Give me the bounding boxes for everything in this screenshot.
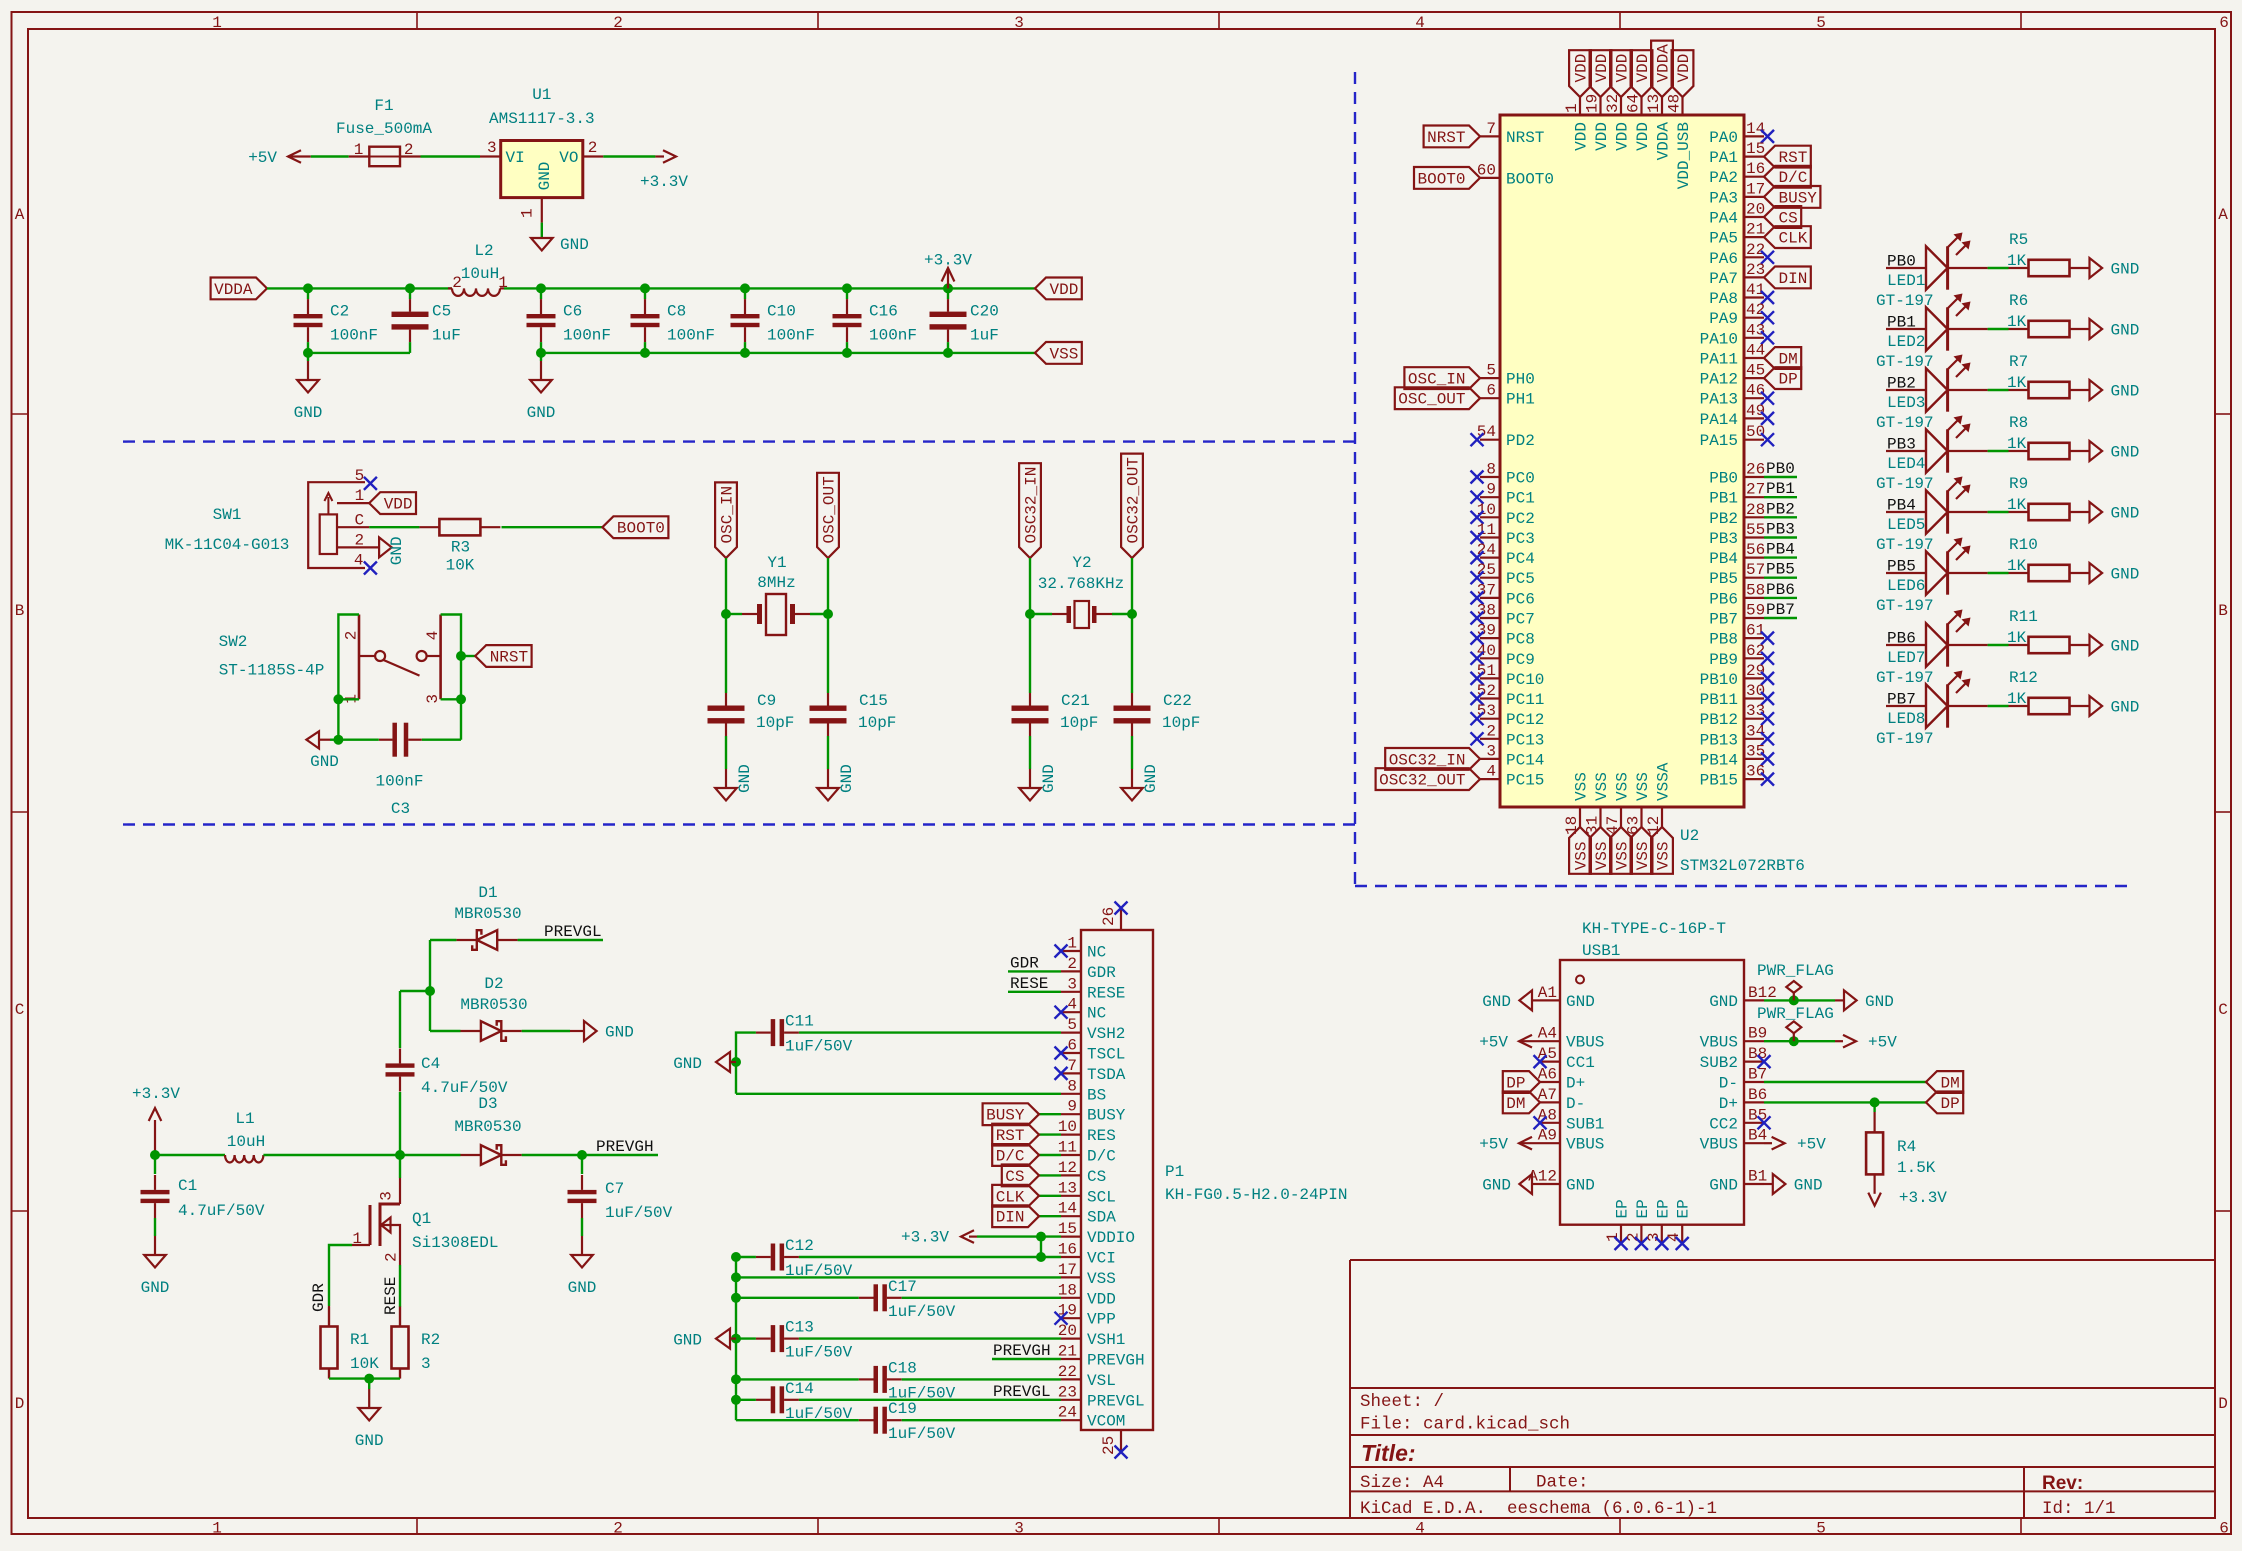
svg-text:VDD: VDD bbox=[1573, 122, 1591, 151]
pin 45 U2 PA12 bbox=[1744, 377, 1764, 379]
global label VDDA bbox=[1651, 41, 1673, 97]
power +5V at USB1 B9 bbox=[1835, 1040, 1843, 1042]
svg-text:27: 27 bbox=[1746, 481, 1765, 499]
svg-text:C1: C1 bbox=[178, 1177, 197, 1195]
no-connect U2 PC7 bbox=[1471, 612, 1484, 625]
svg-text:A: A bbox=[2218, 206, 2228, 224]
capacitor C19 bbox=[874, 1407, 879, 1434]
wire bbox=[1764, 999, 1835, 1001]
wire bbox=[1988, 572, 2009, 574]
pin 20 U2 PA4 bbox=[1744, 216, 1764, 218]
wire bbox=[827, 558, 829, 614]
svg-text:VDD: VDD bbox=[1573, 54, 1591, 83]
svg-text:4: 4 bbox=[1067, 996, 1077, 1014]
svg-text:1K: 1K bbox=[2007, 629, 2027, 647]
wire bbox=[846, 288, 848, 299]
svg-text:PA14: PA14 bbox=[1700, 411, 1738, 429]
svg-text:GND: GND bbox=[2111, 322, 2140, 340]
capacitor C11 bbox=[771, 1019, 776, 1046]
ground under R1 R2 bbox=[368, 1389, 370, 1408]
power +3.3V output bbox=[655, 155, 664, 157]
no-connect U2 PC12 bbox=[1471, 712, 1484, 725]
no-connect U2 PC11 bbox=[1471, 692, 1484, 705]
wire bbox=[1039, 1215, 1061, 1217]
svg-text:PC7: PC7 bbox=[1506, 611, 1535, 629]
wire bbox=[1029, 558, 1031, 614]
svg-text:SUB2: SUB2 bbox=[1700, 1054, 1738, 1072]
pin 15 P1 VDDIO bbox=[1061, 1235, 1081, 1237]
resistor R3 bbox=[439, 519, 480, 535]
svg-text:PC15: PC15 bbox=[1506, 772, 1544, 790]
svg-text:2: 2 bbox=[588, 139, 598, 157]
pin 6 U2 PH1 bbox=[1480, 397, 1500, 399]
global label VSS bbox=[1651, 827, 1673, 874]
no-connect SW1 pin 4 bbox=[364, 562, 377, 575]
svg-text:100nF: 100nF bbox=[667, 326, 715, 344]
svg-text:RES: RES bbox=[1087, 1127, 1116, 1145]
svg-text:DM: DM bbox=[1779, 351, 1798, 369]
wire bbox=[263, 1154, 460, 1156]
wire bbox=[736, 1276, 1061, 1278]
pin 58 U2 PB6 bbox=[1744, 597, 1764, 599]
svg-text:+5V: +5V bbox=[1797, 1136, 1826, 1154]
global label VSS bbox=[1035, 342, 1082, 364]
global label NRST bbox=[1424, 126, 1480, 148]
junction C2 bottom bbox=[303, 348, 313, 358]
svg-text:2: 2 bbox=[1067, 955, 1077, 973]
pin 9 P1 BUSY bbox=[1061, 1113, 1081, 1115]
svg-text:D: D bbox=[15, 1395, 25, 1413]
svg-text:C12: C12 bbox=[785, 1237, 814, 1255]
pin 31 U2 VSS bottom bbox=[1599, 807, 1601, 827]
pin B12 USB1 GND bbox=[1744, 999, 1764, 1001]
svg-text:GND: GND bbox=[2111, 566, 2140, 584]
svg-text:GDR: GDR bbox=[1010, 954, 1039, 972]
capacitor C17 bbox=[874, 1284, 879, 1311]
wire bbox=[827, 736, 829, 769]
pin 20 P1 VSH1 bbox=[1061, 1337, 1081, 1339]
svg-text:59: 59 bbox=[1746, 602, 1765, 620]
pin 17 P1 VSS bbox=[1061, 1276, 1081, 1278]
svg-text:GND: GND bbox=[673, 1332, 702, 1350]
svg-text:OSC_IN: OSC_IN bbox=[719, 486, 737, 544]
junction bus row 16 bbox=[731, 1252, 741, 1262]
svg-text:NRST: NRST bbox=[490, 649, 528, 667]
wire bbox=[799, 1337, 1061, 1339]
global label BUSY bbox=[1764, 186, 1820, 208]
svg-text:28: 28 bbox=[1746, 501, 1765, 519]
wire bbox=[502, 526, 603, 528]
svg-text:3: 3 bbox=[378, 1191, 396, 1201]
ground at C11 bbox=[716, 1052, 730, 1072]
svg-text:VDD: VDD bbox=[1634, 122, 1652, 151]
svg-text:3: 3 bbox=[421, 1355, 431, 1373]
svg-text:D+: D+ bbox=[1719, 1095, 1738, 1113]
pin 19 P1 VPP bbox=[1061, 1317, 1081, 1319]
svg-text:1K: 1K bbox=[2007, 313, 2027, 331]
svg-text:C8: C8 bbox=[667, 302, 686, 320]
no-connect U2 PB9 bbox=[1761, 652, 1774, 665]
svg-text:PA1: PA1 bbox=[1709, 149, 1738, 167]
svg-text:CC2: CC2 bbox=[1709, 1115, 1738, 1133]
no-connect U2 PB11 bbox=[1761, 692, 1774, 705]
svg-text:2: 2 bbox=[383, 1252, 401, 1262]
wire bbox=[307, 342, 309, 353]
pin 18 U2 VSS bottom bbox=[1579, 807, 1581, 827]
svg-text:8: 8 bbox=[1486, 461, 1496, 479]
pin B5 USB1 CC2 bbox=[1744, 1122, 1764, 1124]
svg-text:VDD: VDD bbox=[1593, 122, 1611, 151]
svg-text:A7: A7 bbox=[1538, 1086, 1557, 1104]
capacitor C12 bbox=[771, 1244, 776, 1271]
wire bbox=[504, 287, 1035, 289]
svg-text:GND: GND bbox=[527, 404, 556, 422]
svg-text:PB1: PB1 bbox=[1766, 480, 1795, 498]
junction bus row 18 bbox=[731, 1293, 741, 1303]
svg-text:NC: NC bbox=[1087, 1005, 1106, 1023]
wire bbox=[1988, 644, 2009, 646]
svg-text:GT-197: GT-197 bbox=[1876, 597, 1934, 615]
junction at C2 top bbox=[303, 283, 313, 293]
svg-text:R12: R12 bbox=[2009, 669, 2038, 687]
svg-text:GDR: GDR bbox=[1087, 964, 1116, 982]
global label RST bbox=[1764, 146, 1811, 168]
svg-text:R9: R9 bbox=[2009, 475, 2028, 493]
global label VSS bbox=[1610, 827, 1632, 874]
global label VSS bbox=[1631, 827, 1653, 874]
pin 22 P1 VSL bbox=[1061, 1378, 1081, 1380]
pin A7 USB1 D- bbox=[1540, 1101, 1560, 1103]
pin 26 U2 PB0 bbox=[1744, 476, 1764, 478]
svg-text:PA15: PA15 bbox=[1700, 432, 1738, 450]
svg-text:61: 61 bbox=[1746, 622, 1765, 640]
wire bbox=[1988, 450, 2009, 452]
wire bbox=[1988, 705, 2009, 707]
junction at C10 top bbox=[740, 283, 750, 293]
svg-text:100nF: 100nF bbox=[375, 773, 423, 791]
svg-text:D1: D1 bbox=[478, 884, 497, 902]
svg-text:18: 18 bbox=[1563, 816, 1581, 835]
global label CLK bbox=[1764, 226, 1811, 248]
MCU U2 STM32L072RBT6 bbox=[1500, 115, 1744, 807]
wire bbox=[736, 1256, 756, 1258]
svg-text:1uF/50V: 1uF/50V bbox=[888, 1425, 956, 1443]
svg-text:BOOT0: BOOT0 bbox=[1506, 170, 1554, 188]
power +5V at USB1 B4 bbox=[1764, 1142, 1772, 1144]
svg-text:PA13: PA13 bbox=[1700, 391, 1738, 409]
global label BOOT0 bbox=[602, 516, 668, 538]
power flag PWR_FLAG on VBUS bbox=[1793, 1033, 1795, 1041]
global label D/C bbox=[992, 1144, 1039, 1166]
svg-text:1K: 1K bbox=[2007, 252, 2027, 270]
pin 4 USB1 EP bbox=[1681, 1225, 1683, 1244]
no-connect P1 pin 4 bbox=[1055, 1006, 1068, 1019]
ground at R7 bbox=[2090, 380, 2103, 400]
junction VDDIO bbox=[1036, 1232, 1046, 1242]
section divider dashed line right bbox=[1355, 885, 2130, 887]
svg-text:PB3: PB3 bbox=[1709, 530, 1738, 548]
svg-text:VDDA: VDDA bbox=[214, 281, 253, 299]
svg-text:62: 62 bbox=[1746, 642, 1765, 660]
svg-text:PC5: PC5 bbox=[1506, 570, 1535, 588]
svg-text:1: 1 bbox=[1563, 103, 1581, 113]
svg-text:4: 4 bbox=[354, 552, 364, 570]
svg-text:C9: C9 bbox=[757, 692, 776, 710]
svg-text:MBR0530: MBR0530 bbox=[454, 1118, 521, 1136]
svg-text:PB5: PB5 bbox=[1709, 570, 1738, 588]
wire source RESE bbox=[399, 1265, 401, 1307]
svg-text:PA10: PA10 bbox=[1700, 330, 1738, 348]
svg-text:GND: GND bbox=[568, 1279, 597, 1297]
global label DIN bbox=[1764, 267, 1811, 289]
no-connect U2 PC1 bbox=[1471, 491, 1484, 504]
svg-text:BUSY: BUSY bbox=[1779, 189, 1818, 207]
wire bbox=[744, 288, 746, 299]
svg-text:6: 6 bbox=[2219, 1520, 2229, 1538]
wire bbox=[736, 1378, 859, 1380]
ground under C1 bbox=[154, 1236, 156, 1255]
svg-text:Si1308EDL: Si1308EDL bbox=[412, 1234, 498, 1252]
global label BOOT0 bbox=[1414, 167, 1480, 189]
wire bbox=[1764, 577, 1797, 579]
pin 2 USB1 EP bbox=[1640, 1225, 1642, 1244]
pin 60 U2 BOOT0 bbox=[1480, 177, 1500, 179]
wire bbox=[421, 155, 481, 157]
no-connect U2 PB8 bbox=[1761, 632, 1774, 645]
pin A5 USB1 CC1 bbox=[1540, 1060, 1560, 1062]
svg-text:41: 41 bbox=[1746, 281, 1765, 299]
wire bbox=[1873, 1102, 1875, 1112]
wire bbox=[518, 939, 603, 941]
svg-text:VDD: VDD bbox=[1614, 54, 1632, 83]
svg-text:C13: C13 bbox=[785, 1319, 814, 1337]
wire bbox=[725, 614, 727, 693]
svg-text:ST-1185S-4P: ST-1185S-4P bbox=[219, 662, 325, 680]
wire bbox=[154, 1218, 156, 1236]
no-connect U2 PB12 bbox=[1761, 712, 1774, 725]
svg-text:B1: B1 bbox=[1748, 1168, 1767, 1186]
svg-text:PB9: PB9 bbox=[1709, 651, 1738, 669]
global label VDDA bbox=[211, 278, 267, 300]
svg-text:43: 43 bbox=[1746, 321, 1765, 339]
svg-text:MBR0530: MBR0530 bbox=[460, 996, 527, 1014]
svg-text:58: 58 bbox=[1746, 581, 1765, 599]
svg-text:PC9: PC9 bbox=[1506, 651, 1535, 669]
wire bbox=[399, 1092, 401, 1155]
svg-text:VSH1: VSH1 bbox=[1087, 1331, 1125, 1349]
svg-text:PREVGH: PREVGH bbox=[596, 1138, 654, 1156]
svg-text:63: 63 bbox=[1625, 816, 1643, 835]
svg-text:C6: C6 bbox=[563, 302, 582, 320]
wire bbox=[1764, 1081, 1926, 1083]
power +3.3V below R4 bbox=[1873, 1174, 1875, 1193]
svg-text:12: 12 bbox=[1645, 816, 1663, 835]
svg-text:5: 5 bbox=[1067, 1016, 1077, 1034]
ground under C22 bbox=[1131, 769, 1133, 788]
ground at R8 bbox=[2090, 441, 2103, 461]
no-connect U2 PA15 bbox=[1761, 433, 1774, 446]
svg-text:100nF: 100nF bbox=[767, 326, 815, 344]
svg-text:PC6: PC6 bbox=[1506, 590, 1535, 608]
svg-text:R2: R2 bbox=[421, 1331, 440, 1349]
pin 1 USB1 EP bbox=[1620, 1225, 1622, 1244]
pin 59 U2 PB7 bbox=[1744, 617, 1764, 619]
svg-text:D3: D3 bbox=[478, 1095, 497, 1113]
section divider dashed line vertical bbox=[1354, 72, 1356, 886]
svg-text:VDDIO: VDDIO bbox=[1087, 1229, 1135, 1247]
pin B6 USB1 D+ bbox=[1744, 1101, 1764, 1103]
svg-text:PC4: PC4 bbox=[1506, 550, 1535, 568]
pin 21 P1 PREVGH bbox=[1061, 1358, 1081, 1360]
global label VDD bbox=[1672, 50, 1694, 97]
svg-text:26: 26 bbox=[1100, 907, 1118, 926]
no-connect U2 PA14 bbox=[1761, 412, 1774, 425]
svg-text:PA5: PA5 bbox=[1709, 230, 1738, 248]
svg-text:2: 2 bbox=[404, 141, 414, 159]
no-connect USB1 EP 3 bbox=[1655, 1237, 1668, 1250]
svg-text:1K: 1K bbox=[2007, 435, 2027, 453]
svg-text:PB1: PB1 bbox=[1709, 490, 1738, 508]
regulator U1 AMS1117-3.3 bbox=[501, 141, 583, 198]
svg-text:10uH: 10uH bbox=[461, 265, 499, 283]
svg-text:A1: A1 bbox=[1538, 984, 1557, 1002]
svg-text:RESE: RESE bbox=[1087, 984, 1125, 1002]
capacitor C3 bbox=[392, 723, 397, 757]
svg-text:PREVGH: PREVGH bbox=[993, 1342, 1051, 1360]
svg-text:VDD: VDD bbox=[1634, 54, 1652, 83]
svg-text:PB3: PB3 bbox=[1887, 436, 1916, 454]
svg-text:L2: L2 bbox=[474, 242, 493, 260]
wire bbox=[644, 342, 646, 353]
global label VDD bbox=[1590, 50, 1612, 97]
wire bbox=[1131, 736, 1133, 769]
ground under C9 bbox=[725, 769, 727, 788]
svg-text:KiCad E.D.A. eeschema (6.0.6-: KiCad E.D.A. eeschema (6.0.6-1)-1 bbox=[1360, 1499, 1717, 1519]
ground under C7 bbox=[581, 1236, 583, 1255]
svg-text:PB6: PB6 bbox=[1887, 630, 1916, 648]
no-connect U2 PC10 bbox=[1471, 672, 1484, 685]
global label DM bbox=[1503, 1092, 1540, 1114]
svg-text:PA7: PA7 bbox=[1709, 270, 1738, 288]
svg-text:1: 1 bbox=[212, 14, 222, 32]
wire to GND under C6 bbox=[540, 353, 542, 361]
pin 3 U1 bbox=[480, 155, 501, 157]
svg-text:PB5: PB5 bbox=[1887, 558, 1916, 576]
svg-text:OSC_OUT: OSC_OUT bbox=[821, 476, 839, 543]
svg-text:GND: GND bbox=[1709, 993, 1738, 1011]
svg-text:SCL: SCL bbox=[1087, 1188, 1116, 1206]
svg-text:VSL: VSL bbox=[1087, 1372, 1116, 1390]
power +3.3V at C20 bbox=[947, 270, 949, 288]
svg-text:Y1: Y1 bbox=[767, 554, 786, 572]
svg-text:PB1: PB1 bbox=[1887, 314, 1916, 332]
svg-text:30: 30 bbox=[1746, 682, 1765, 700]
svg-text:C19: C19 bbox=[888, 1400, 917, 1418]
svg-text:PREVGH: PREVGH bbox=[1087, 1352, 1145, 1370]
wire bbox=[992, 1358, 1061, 1360]
capacitor C13 bbox=[771, 1325, 776, 1352]
svg-text:KH-TYPE-C-16P-T: KH-TYPE-C-16P-T bbox=[1582, 920, 1726, 938]
pin 24 P1 VCOM bbox=[1061, 1419, 1081, 1421]
ground under U1 bbox=[531, 238, 553, 251]
no-connect U2 PB15 bbox=[1761, 773, 1774, 786]
svg-text:PA11: PA11 bbox=[1700, 351, 1738, 369]
svg-text:GND: GND bbox=[2111, 444, 2140, 462]
ground at USB1 B12 bbox=[1835, 999, 1844, 1001]
resistor R10 1K bbox=[2029, 565, 2070, 581]
pin 54 U2 PD2 bbox=[1480, 439, 1500, 441]
LED LED3 GT-197 bbox=[1886, 389, 1926, 391]
svg-text:OSC_IN: OSC_IN bbox=[1408, 371, 1466, 389]
svg-text:PB7: PB7 bbox=[1887, 691, 1916, 709]
no-connect U2 PA8 bbox=[1761, 291, 1774, 304]
svg-text:GND: GND bbox=[1482, 1177, 1511, 1195]
pin 32 U2 VDD top bbox=[1620, 97, 1622, 115]
pin 2 P1 GDR bbox=[1061, 970, 1081, 972]
svg-text:A9: A9 bbox=[1538, 1127, 1557, 1145]
svg-text:DP: DP bbox=[1506, 1075, 1525, 1093]
svg-text:A4: A4 bbox=[1538, 1025, 1557, 1043]
ground at C3 bbox=[306, 731, 319, 748]
svg-text:PC13: PC13 bbox=[1506, 731, 1544, 749]
svg-text:VDD: VDD bbox=[1593, 54, 1611, 83]
svg-text:GDR: GDR bbox=[310, 1283, 328, 1312]
svg-text:NRST: NRST bbox=[1427, 129, 1465, 147]
svg-text:5: 5 bbox=[1816, 1520, 1826, 1538]
pin 57 U2 PB5 bbox=[1744, 577, 1764, 579]
svg-text:C16: C16 bbox=[869, 302, 898, 320]
svg-text:VSSA: VSSA bbox=[1655, 762, 1673, 801]
global label OSC32_IN bbox=[1019, 463, 1041, 558]
svg-text:GND: GND bbox=[141, 1279, 170, 1297]
svg-text:GND: GND bbox=[605, 1024, 634, 1042]
svg-text:LED1: LED1 bbox=[1887, 272, 1925, 290]
svg-text:1K: 1K bbox=[2007, 496, 2027, 514]
svg-text:VDD: VDD bbox=[1087, 1290, 1116, 1308]
junction at C20 top bbox=[943, 283, 953, 293]
svg-text:BOOT0: BOOT0 bbox=[617, 520, 665, 538]
svg-text:Rev:: Rev: bbox=[2042, 1473, 2083, 1494]
svg-text:EP: EP bbox=[1675, 1199, 1693, 1218]
wire bbox=[902, 1297, 1061, 1299]
svg-text:33: 33 bbox=[1746, 702, 1765, 720]
svg-text:PA4: PA4 bbox=[1709, 210, 1738, 228]
no-connect USB1 SUB2 bbox=[1758, 1055, 1771, 1068]
svg-text:VI: VI bbox=[506, 149, 525, 167]
svg-text:1: 1 bbox=[355, 487, 365, 505]
wire bbox=[329, 1377, 400, 1379]
wire bbox=[441, 698, 461, 700]
global label DIN bbox=[992, 1205, 1039, 1227]
svg-text:6: 6 bbox=[1486, 382, 1496, 400]
svg-text:R6: R6 bbox=[2009, 292, 2028, 310]
svg-text:OSC32_IN: OSC32_IN bbox=[1023, 467, 1041, 544]
wire bbox=[846, 342, 848, 353]
svg-text:44: 44 bbox=[1746, 342, 1765, 360]
wire bbox=[522, 1030, 570, 1032]
pin 3 P1 RESE bbox=[1061, 991, 1081, 993]
svg-text:32.768KHz: 32.768KHz bbox=[1038, 575, 1124, 593]
pin 7 P1 TSDA bbox=[1061, 1072, 1081, 1074]
svg-text:+3.3V: +3.3V bbox=[924, 252, 972, 270]
pin 33 U2 PB12 bbox=[1744, 718, 1764, 720]
power +5V at USB1 A9 bbox=[1519, 1137, 1532, 1150]
svg-text:9: 9 bbox=[1486, 481, 1496, 499]
svg-text:VSS: VSS bbox=[1573, 772, 1591, 801]
svg-text:VSS: VSS bbox=[1593, 772, 1611, 801]
wire bbox=[799, 1256, 1041, 1258]
svg-text:+3.3V: +3.3V bbox=[640, 173, 688, 191]
